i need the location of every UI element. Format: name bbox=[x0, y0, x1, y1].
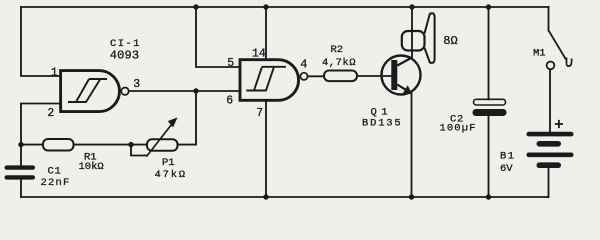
wire P1 wiper loop bbox=[131, 145, 147, 156]
node 3 feedback bbox=[193, 88, 198, 93]
svg-text:22nF: 22nF bbox=[41, 177, 71, 189]
node C2/bottom rail bbox=[486, 194, 491, 199]
svg-text:2: 2 bbox=[47, 107, 54, 120]
battery B1 plates bbox=[527, 132, 574, 168]
svg-text:100µF: 100µF bbox=[440, 123, 477, 135]
svg-text:4: 4 bbox=[300, 59, 307, 72]
svg-text:1: 1 bbox=[51, 67, 58, 80]
node speaker/top rail bbox=[409, 4, 414, 9]
potentiometer P1 arrow bbox=[147, 118, 177, 156]
svg-text:5: 5 bbox=[227, 57, 234, 70]
svg-text:P1: P1 bbox=[162, 157, 175, 169]
svg-text:Q1: Q1 bbox=[371, 106, 393, 118]
wire P1 right up to node 3 bbox=[178, 91, 197, 145]
wire output 4 to R2 bbox=[308, 75, 324, 77]
transistor Q1 bbox=[382, 56, 421, 95]
wire R2 to base bbox=[357, 75, 391, 77]
svg-text:BD135: BD135 bbox=[362, 118, 403, 130]
wire R1 row left bbox=[21, 144, 43, 146]
node emitter/bottom rail bbox=[409, 194, 414, 199]
wire emitter down to rail bbox=[411, 94, 413, 198]
wire C1 bottom to rail bbox=[20, 180, 22, 198]
node pin2/R1/C1 bbox=[18, 142, 23, 147]
switch M1 blade bbox=[549, 30, 567, 59]
wire pin 2 down to R1/C1 node bbox=[21, 104, 61, 167]
potentiometer P1 body bbox=[147, 139, 178, 151]
wire switch to battery bbox=[549, 70, 551, 133]
speaker driver box bbox=[402, 31, 425, 51]
node pin7/bottom rail bbox=[263, 194, 268, 199]
svg-text:10kΩ: 10kΩ bbox=[79, 161, 104, 173]
svg-text:R2: R2 bbox=[331, 44, 344, 56]
wire C2 top bbox=[488, 7, 490, 99]
wire switch corner bbox=[548, 7, 550, 30]
svg-text:B1: B1 bbox=[500, 150, 516, 162]
svg-text:4093: 4093 bbox=[110, 49, 140, 63]
NAND gate CI-1a (4093) body bbox=[61, 71, 120, 112]
battery plus sign bbox=[555, 120, 563, 128]
node pin5/top rail bbox=[193, 4, 198, 9]
svg-text:8Ω: 8Ω bbox=[443, 34, 457, 48]
wire left vertical to pin 1 bbox=[21, 7, 61, 76]
wire battery to rail bbox=[548, 168, 550, 197]
gate CI-1a output bubble bbox=[121, 88, 128, 95]
svg-text:7: 7 bbox=[256, 107, 263, 120]
wire R1 to P1 bbox=[74, 144, 148, 146]
wire output 3 to pin 6 bbox=[129, 90, 240, 92]
wire C2 bottom bbox=[488, 116, 490, 197]
gate CI-1b output bubble bbox=[300, 73, 307, 80]
svg-text:M1: M1 bbox=[533, 47, 546, 59]
resistor R1 bbox=[43, 139, 74, 151]
svg-text:3: 3 bbox=[133, 78, 140, 91]
capacitor C1 plates bbox=[5, 165, 36, 179]
speaker cone bbox=[425, 13, 435, 63]
wire bottom rail bbox=[21, 196, 549, 198]
svg-text:14: 14 bbox=[252, 47, 266, 60]
transistor Q1 collector bbox=[397, 58, 412, 66]
wire collector up to speaker bbox=[411, 31, 413, 58]
wire pin 14 bbox=[265, 7, 267, 60]
gate CI-1b schmitt symbol bbox=[246, 67, 286, 91]
node junction dots bbox=[18, 4, 491, 199]
svg-text:47kΩ: 47kΩ bbox=[155, 169, 187, 181]
transistor Q1 emitter bbox=[397, 85, 410, 93]
node pin14/top rail bbox=[263, 4, 268, 9]
resistor R2 bbox=[324, 71, 357, 82]
svg-text:C1: C1 bbox=[48, 165, 62, 177]
switch M1 contact hook bbox=[567, 58, 572, 67]
switch M1 terminal bbox=[547, 62, 555, 70]
svg-text:6V: 6V bbox=[500, 163, 513, 175]
node C2/top rail bbox=[486, 4, 491, 9]
wire speaker to top rail bbox=[411, 7, 413, 31]
transistor Q1 base bar bbox=[391, 60, 397, 90]
wire pin 5 from top rail bbox=[196, 7, 240, 67]
node R1/P1 wiper bbox=[128, 142, 133, 147]
svg-text:6: 6 bbox=[226, 94, 233, 107]
gate CI-1a schmitt symbol bbox=[68, 79, 107, 102]
NAND gate CI-1b (4093) body bbox=[240, 60, 299, 101]
wire pin 7 bbox=[265, 100, 267, 197]
capacitor C2 bbox=[474, 99, 506, 105]
wire top rail bbox=[21, 6, 549, 8]
svg-text:4,7kΩ: 4,7kΩ bbox=[322, 57, 356, 69]
